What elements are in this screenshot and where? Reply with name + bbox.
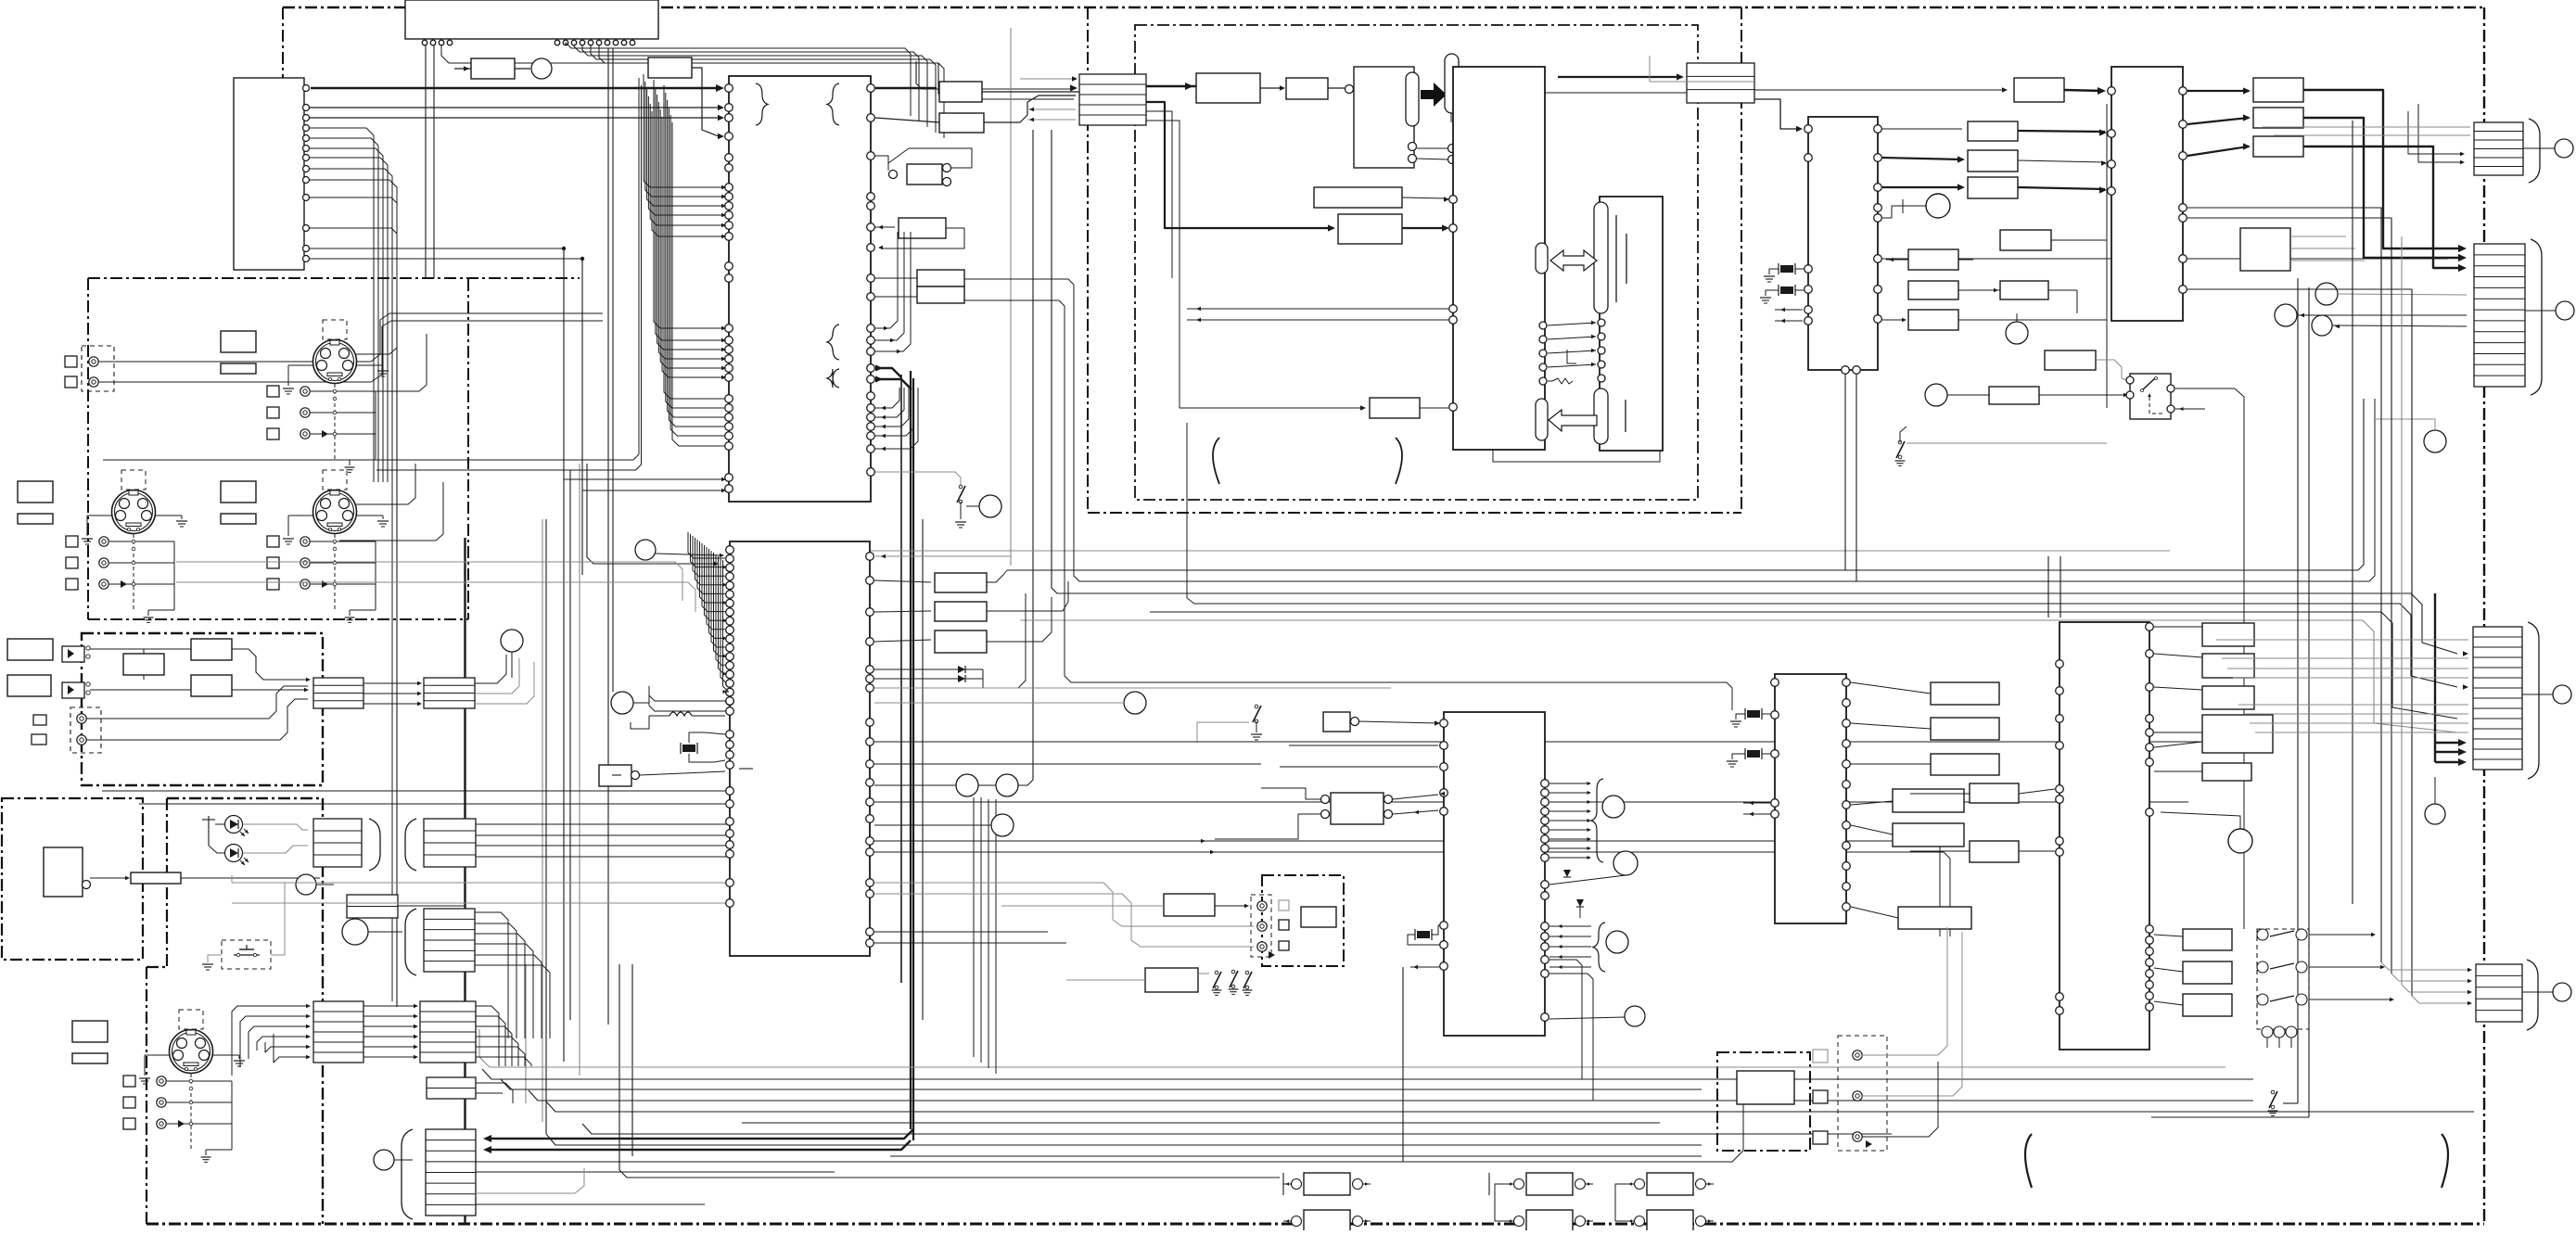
IC timer/display bbox=[1775, 674, 1846, 923]
wire 865 long bbox=[874, 801, 2188, 803]
wire verticals right half bbox=[2047, 556, 2049, 617]
test point circle bbox=[501, 630, 523, 652]
wires DIN3 to right bus bbox=[356, 464, 415, 504]
box tension bbox=[1908, 310, 1958, 330]
jack phono R symbol bbox=[62, 682, 84, 698]
filter pair group 2 bbox=[1514, 1179, 1524, 1190]
arrows into CN501 bbox=[1020, 78, 1076, 80]
box bias bbox=[1286, 78, 1328, 99]
circle audio R bbox=[1613, 851, 1638, 875]
circle sensor lower bbox=[2424, 430, 2446, 452]
wire capstan 279 long bbox=[1882, 258, 2448, 260]
crystal X502 bbox=[1780, 286, 1793, 294]
wire: two lines to syscon bbox=[310, 107, 721, 108]
bold path A to CN bbox=[2303, 90, 2462, 248]
connector CN-R2 motor big bbox=[2474, 244, 2525, 387]
connector CN152 bbox=[424, 678, 475, 708]
box mech1 bbox=[1314, 187, 1402, 208]
frame: mid vertical divider bbox=[1087, 7, 1089, 513]
syscon left pins bbox=[725, 84, 733, 93]
connector headphone dashed bbox=[1251, 895, 1271, 957]
servo bottom wires bbox=[232, 875, 725, 883]
jack ANT2 bbox=[89, 377, 98, 387]
connector DIN jack at 206,1134 bbox=[170, 1030, 213, 1074]
wire syscon 509 gray to power switch bbox=[875, 472, 961, 485]
circle cam bbox=[1925, 384, 1947, 406]
box reel FG bbox=[2000, 230, 2051, 250]
display circle bbox=[342, 919, 368, 945]
wire capstan out1 bbox=[1882, 128, 1962, 130]
wires LEDs to CN bbox=[243, 824, 308, 830]
bottom joining wire bbox=[1493, 450, 1660, 462]
wires into CN502 bbox=[1558, 76, 1681, 78]
jack phono L symbol bbox=[62, 646, 84, 662]
push switch dashed bbox=[222, 940, 271, 969]
frame: mech block right vertical bbox=[1741, 7, 1742, 513]
wire bundle: bottom horizontals bbox=[479, 1029, 2225, 1067]
servo left wires mid bbox=[649, 686, 725, 701]
connector CN903 2-row bbox=[427, 1077, 476, 1099]
box motor drive B bbox=[2253, 108, 2303, 128]
diodes audio bbox=[1576, 899, 1584, 907]
wires CN151-CN152 bbox=[363, 682, 420, 684]
box EQ1 bbox=[939, 82, 982, 102]
bold wires syscon to servo bus bbox=[875, 368, 901, 377]
box D2 bbox=[935, 602, 987, 621]
frame: front panel dash-dot region bbox=[167, 797, 323, 799]
boxes timer lower bbox=[1893, 789, 1964, 812]
wire: y615 from D1 to capstan IC bottom pin bbox=[1007, 399, 2364, 570]
circle sensor bbox=[991, 814, 1014, 836]
gray wires to CN-R1 top bbox=[2263, 126, 2470, 128]
connector CN151 bbox=[313, 678, 363, 708]
capstan bottom pins bbox=[1842, 366, 1850, 375]
wire: gray horizontal y594 full width bbox=[797, 550, 2170, 552]
wires into syscon left mid bbox=[644, 74, 724, 187]
circles mode sensors bbox=[956, 774, 978, 796]
crystal timer 1 bbox=[1747, 710, 1760, 718]
switch right of servo bbox=[1255, 705, 1258, 708]
connector mic dashed bbox=[1838, 1036, 1887, 1151]
frame: left vertical to CPU box bbox=[282, 7, 284, 80]
box motor drive C bbox=[2253, 136, 2303, 157]
box D1 bbox=[935, 573, 987, 592]
power switch bbox=[979, 495, 1001, 517]
connector CN171 bbox=[313, 819, 362, 867]
IC syscon main bbox=[729, 76, 871, 502]
paren left mech bbox=[1213, 438, 1219, 484]
wire thick syscon out bbox=[875, 87, 937, 90]
frame: main top border bbox=[283, 6, 2484, 9]
audio right pins bbox=[1541, 780, 1549, 788]
bold path C to CN bbox=[2303, 146, 2462, 268]
bold path B to CN bbox=[2303, 118, 2462, 258]
IC system control right bbox=[2060, 622, 2149, 1050]
capsule drum left bbox=[1536, 243, 1548, 274]
double open arrow bbox=[1550, 250, 1597, 271]
wires under DIN bbox=[133, 534, 134, 609]
trunks to audio lines bbox=[371, 78, 639, 460]
servo left wire comb top bbox=[688, 532, 725, 558]
paren right mech bbox=[1396, 438, 1402, 484]
wire to fuse bbox=[90, 877, 127, 879]
bold wires into CN-S1 bbox=[2434, 593, 2436, 762]
servo left long wires bbox=[102, 790, 725, 792]
wire driver out thick2 bbox=[2187, 118, 2249, 124]
arrows capstan low bbox=[1775, 309, 1803, 311]
brace pin group top right bbox=[827, 83, 839, 125]
boxes line-in labels bbox=[7, 639, 53, 660]
servo left pins bbox=[726, 546, 734, 554]
circle hall bbox=[1124, 692, 1146, 714]
wire bundle: tuner loop-back wires bbox=[310, 128, 374, 482]
wire servo 824 long bbox=[874, 763, 1261, 765]
oscillator circle under CPU bbox=[531, 58, 552, 79]
tuner pins right bbox=[303, 85, 310, 92]
fan arrows to brace bbox=[1549, 783, 1589, 784]
box head amp with capsule bbox=[1354, 67, 1414, 168]
box REC/PB amp bbox=[1196, 73, 1260, 103]
syscon right pins bbox=[867, 84, 875, 93]
connector CN501 bus bbox=[1079, 74, 1146, 125]
IC drum/capstan driver bbox=[2111, 67, 2183, 321]
box syscon2 small bbox=[2202, 763, 2251, 781]
wires CN152 right bbox=[475, 655, 506, 683]
wires under DIN bbox=[190, 1074, 192, 1149]
wires servo bottom right bbox=[874, 883, 1254, 926]
box reel sensor B bbox=[1908, 281, 1958, 299]
wires: tuner lower pins bbox=[310, 197, 397, 203]
capacitor audio bbox=[1417, 931, 1430, 938]
brace mid right bbox=[827, 325, 839, 360]
pins drum interface bbox=[1539, 322, 1547, 329]
wires CN172 to servo IC bbox=[476, 823, 727, 825]
LED timer bbox=[225, 845, 243, 862]
capsule head entry bbox=[1445, 54, 1459, 113]
wire long from DIN2 group right bbox=[103, 459, 371, 461]
box audio bias bbox=[1331, 793, 1384, 824]
phono jacks L/R bbox=[157, 1076, 166, 1086]
connector CN901 bbox=[313, 1001, 363, 1063]
wire servo 742 right bbox=[874, 687, 1391, 689]
phono jacks L/R bbox=[300, 387, 310, 396]
box line amp L bbox=[191, 639, 232, 660]
wire: long horizontal y660 bbox=[1150, 612, 2457, 719]
connector DIN jack at 361,552 bbox=[313, 490, 357, 534]
servo right pins bbox=[866, 553, 874, 561]
box EQ2 bbox=[939, 113, 984, 133]
circle audio out bbox=[1625, 1006, 1645, 1026]
remote sensor circle bbox=[296, 874, 316, 895]
jack ANT1 bbox=[89, 357, 98, 366]
connector DIN jack at 361,390 bbox=[313, 340, 357, 384]
IC audio processor bbox=[1444, 712, 1545, 1036]
capstan pins right bbox=[1874, 125, 1882, 134]
wire: y651 from loop box to CN-S1 bbox=[2400, 604, 2457, 687]
frame: right border vertical bbox=[2483, 7, 2485, 1224]
wire servo 800 long bbox=[874, 741, 2225, 743]
double box bbox=[917, 270, 964, 286]
thin arrows to CN-R1 bbox=[2408, 111, 2462, 154]
box headphone amp bbox=[1164, 894, 1215, 916]
frame: bottom border bbox=[147, 1223, 2484, 1226]
IC servo signal processor bbox=[730, 541, 870, 956]
frame: power block dash-dot box bbox=[2, 798, 143, 960]
connector DIN jack at 144,552 bbox=[112, 490, 156, 534]
label boxes bbox=[18, 481, 53, 503]
wires CPU pins curving right bbox=[566, 43, 911, 116]
sensor circles bbox=[2315, 283, 2338, 305]
brace pin group top left bbox=[756, 83, 768, 125]
box D3 bbox=[935, 630, 987, 653]
frame: headphone dash-dot box bbox=[1262, 875, 1344, 966]
wires CN501 right bbox=[1146, 85, 1196, 87]
box phase bbox=[1968, 177, 2018, 198]
capsule drum lower bbox=[1536, 399, 1548, 440]
mode circle bbox=[374, 1150, 394, 1170]
wires under DIN bbox=[334, 534, 336, 609]
box mech2 bbox=[1338, 214, 1402, 244]
box line amp R bbox=[191, 675, 232, 696]
squares mic bbox=[1813, 1050, 1828, 1063]
syscon2 right pins bbox=[2146, 623, 2154, 631]
capstan pins left bbox=[1804, 125, 1813, 134]
circle reel motor bbox=[2006, 322, 2028, 344]
driver pins left bbox=[2108, 87, 2116, 95]
wires 907 919 bbox=[874, 841, 1940, 936]
wires CN904 right bbox=[476, 1171, 835, 1173]
connector CN172 bbox=[424, 819, 476, 867]
wire vertical under headphone frame bbox=[1402, 967, 1404, 1162]
squares headphone bbox=[1279, 900, 1289, 910]
box mech3 bbox=[1370, 398, 1420, 418]
head drum box bbox=[1600, 197, 1663, 451]
big filled arrow to head bbox=[1421, 83, 1447, 107]
wires mode switch out bbox=[2309, 934, 2374, 936]
wires syscon2 to CN-S1 bbox=[2216, 639, 2468, 641]
box motor drive A bbox=[2253, 78, 2303, 102]
filter pair group 1 bbox=[1292, 1179, 1302, 1190]
syscon2 left pins bbox=[2056, 660, 2064, 668]
box mode sw amp bbox=[2045, 350, 2096, 370]
box with circles bbox=[889, 171, 898, 179]
wire driver out thick3 bbox=[2187, 146, 2249, 156]
frame: mid horizontal divider bbox=[1088, 512, 1741, 514]
box delay bbox=[899, 218, 946, 238]
audio left pins bbox=[1440, 719, 1448, 728]
box reel amp bbox=[2000, 281, 2048, 299]
driver pins right bbox=[2179, 87, 2187, 95]
wire long y1253 bbox=[476, 1076, 1743, 1162]
wire: main thick signal to syscon bbox=[311, 87, 719, 90]
wires servo to boxes bbox=[874, 580, 931, 582]
wire bus: verticals from syscon connector bbox=[1010, 28, 1012, 566]
drum box pins left bbox=[1449, 196, 1458, 204]
label boxes bbox=[221, 481, 256, 503]
oscillator circle servo bbox=[611, 692, 633, 714]
box osc bbox=[599, 765, 631, 786]
3 small boxes syscon2 bottom bbox=[2183, 929, 2232, 950]
wire bus: vertical left column bbox=[396, 311, 398, 1007]
open arrow left bbox=[1549, 410, 1597, 431]
box mode bbox=[2014, 78, 2064, 102]
boxes syscon2 left bbox=[1970, 783, 2019, 803]
wires line-in to CN bbox=[232, 649, 308, 680]
resistor squiggle bbox=[1552, 378, 1573, 384]
connector CN-S2 bbox=[2476, 964, 2522, 1022]
connector CN502 bus bbox=[1687, 63, 1754, 103]
switch mid bbox=[1898, 440, 1902, 444]
wire CN502 to mode box bbox=[1754, 89, 2005, 91]
crystal servo bbox=[682, 745, 695, 752]
switch muting bbox=[1231, 970, 1235, 974]
crystal X501 bbox=[1780, 265, 1793, 273]
wires drum left mid bbox=[1187, 308, 1448, 310]
connector CN174 bbox=[424, 909, 475, 972]
pins between head amp and drum bbox=[1448, 145, 1457, 153]
switch block bbox=[2130, 374, 2171, 419]
resistor block under CPU bbox=[471, 58, 515, 79]
arrows out left CN501 bbox=[1027, 108, 1076, 110]
LED power bbox=[225, 816, 243, 834]
wires LED feed bbox=[208, 816, 210, 846]
wire driver out thick1 bbox=[2187, 90, 2249, 92]
paren bottom right bbox=[2442, 1134, 2448, 1188]
IC IC901 key CPU top box bbox=[405, 0, 658, 39]
frame: mic jack dash-dot box bbox=[1717, 1052, 1810, 1151]
wire bus: verticals under CPU bbox=[916, 61, 1074, 89]
box attenuator bbox=[123, 654, 164, 675]
wire CN502 down to capstan IC bbox=[1754, 99, 1799, 129]
connector CN173 small bbox=[347, 895, 398, 918]
arrows timer bbox=[1743, 802, 1770, 804]
wire bus: verticals right of servo IC bbox=[900, 375, 902, 983]
filter pair group 3 bbox=[1635, 1179, 1645, 1190]
box headphone jack bbox=[1301, 907, 1336, 927]
connector CN902 bbox=[420, 1001, 476, 1063]
phono jacks L/R bbox=[99, 537, 108, 546]
label boxes bbox=[221, 331, 256, 352]
wire capstan out3 thick bbox=[1882, 186, 1962, 188]
inductor bbox=[649, 715, 670, 717]
switches line out bbox=[1215, 971, 1218, 974]
wires syscon loops lower bbox=[875, 388, 899, 408]
wires into CN-S2 bbox=[2381, 962, 2470, 970]
verticals below mode circles bbox=[973, 797, 975, 1057]
connector CN-R1 motor bbox=[2474, 122, 2523, 175]
IC tuner/front-end block bbox=[234, 78, 304, 270]
box syscon2 big bbox=[2202, 715, 2273, 753]
diode pair bbox=[874, 668, 958, 670]
box cam amp bbox=[1989, 387, 2039, 404]
IF block right of CPU bbox=[648, 57, 692, 78]
phono jacks L/R bbox=[300, 537, 310, 546]
wires DIN4 to CN901 bbox=[232, 1006, 308, 1076]
connector CN904 8-row bbox=[426, 1129, 476, 1216]
wire capstan out2 thick bbox=[1882, 158, 1962, 159]
wires antenna to bus bbox=[98, 313, 603, 362]
box speed bbox=[1968, 150, 2018, 172]
wires DIN1 to bus bbox=[356, 315, 397, 354]
pins under CPU box bbox=[422, 40, 427, 45]
box mic amp bbox=[1737, 1071, 1794, 1104]
bracket pair cable bbox=[369, 819, 380, 871]
motor circle M bbox=[1926, 194, 1950, 218]
frame: line-in dash-dot box bbox=[82, 633, 323, 785]
boxes right of timer bbox=[1931, 682, 1999, 705]
big circle remote bbox=[2228, 829, 2252, 853]
timer right pins bbox=[1843, 679, 1851, 687]
timer left pins bbox=[1771, 679, 1779, 687]
wires CN902 right fanning bbox=[476, 1006, 499, 1066]
frame: inner mechanism dash-dot box bbox=[1135, 25, 1698, 500]
circle osc above servo bbox=[635, 540, 656, 560]
IC servo drum box bbox=[1453, 67, 1545, 450]
wires from CPU pins down bbox=[425, 45, 427, 278]
connector CN-S1 bbox=[2473, 627, 2522, 770]
jack aux dashed bbox=[70, 707, 101, 753]
box fuse/regulator bbox=[131, 872, 181, 884]
wires syscon upper-right loops bbox=[875, 232, 898, 328]
wires C3 bottom pins down bbox=[1549, 960, 1582, 1079]
IC capstan servo B10 bbox=[1808, 117, 1878, 370]
wire: vertical to mode circle bbox=[1018, 130, 1033, 785]
box reel sensor A bbox=[1908, 249, 1958, 270]
box audio in bbox=[1323, 712, 1350, 732]
wires under DIN bbox=[334, 384, 336, 459]
wires CN174 right bbox=[475, 912, 508, 1038]
audio lower pins wiring bbox=[1549, 925, 1591, 927]
box line out amp bbox=[1145, 968, 1198, 992]
wire: y640 long to CN-S1 bbox=[1052, 130, 2457, 654]
box power transformer bbox=[44, 847, 83, 897]
frame: jack panel left region bbox=[88, 277, 580, 279]
label boxes bbox=[72, 1021, 108, 1042]
gray audio lines from DIN2 to servo comb bbox=[176, 562, 682, 601]
box sensor M1 bbox=[2240, 228, 2290, 271]
wire bus: center verticals bbox=[525, 964, 527, 1103]
wires CN901-CN902 bbox=[363, 1005, 415, 1007]
paren bottom left bbox=[2025, 1134, 2032, 1188]
boxes syscon2 right bbox=[2202, 623, 2254, 646]
switch bottom right bbox=[2271, 1090, 2275, 1094]
mode switch grid bbox=[2257, 929, 2309, 1029]
bold wires into CN904 bbox=[491, 1129, 913, 1139]
crystal timer 2 bbox=[1747, 750, 1760, 758]
box FG amp bbox=[1968, 121, 2018, 141]
wires mic to right bbox=[1862, 927, 1947, 1055]
connector ext antenna dashed box bbox=[82, 346, 114, 391]
